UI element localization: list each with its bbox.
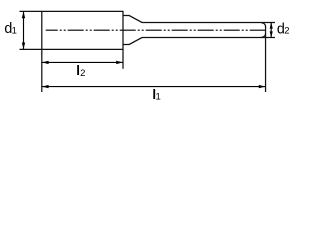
svg-text:2: 2	[80, 68, 85, 79]
svg-text:1: 1	[156, 91, 161, 102]
svg-text:1: 1	[12, 25, 17, 36]
svg-text:2: 2	[284, 26, 289, 37]
